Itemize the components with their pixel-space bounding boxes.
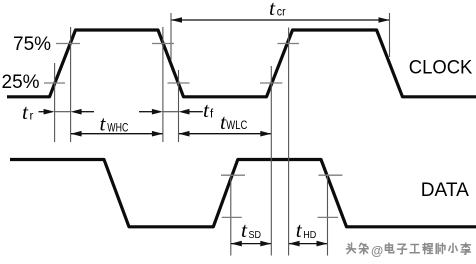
projection line rise2 25% <box>270 66 272 256</box>
tick upper on data fall <box>319 174 343 176</box>
tick 25% on rise2 <box>260 82 282 84</box>
watermark 头条@电子工程师小李 <box>346 243 470 254</box>
svg-text:t: t <box>241 218 248 242</box>
projection line rise1 25% <box>54 63 56 142</box>
dimension arrow t_r right (outside) <box>71 109 94 115</box>
svg-text:CLOCK: CLOCK <box>409 57 473 78</box>
projection line fall1 50% for tcr <box>170 13 172 60</box>
tick upper on data rise <box>221 174 245 176</box>
tick 25% on fall1 <box>168 82 190 84</box>
tick 75% on fall1 <box>152 43 174 45</box>
svg-text:WLC: WLC <box>226 118 247 132</box>
tick lower on data-rise projection <box>222 216 242 218</box>
svg-text:t: t <box>100 112 107 136</box>
connector line across t_f gap <box>163 111 179 113</box>
tick lower on data-fall projection <box>318 216 339 218</box>
svg-text:t: t <box>269 0 276 20</box>
svg-text:cr: cr <box>277 6 286 18</box>
clock waveform <box>7 30 476 97</box>
dimension arrow t_f left (outside) <box>139 109 163 115</box>
svg-text:@: @ <box>371 244 383 258</box>
projection line data rise <box>230 174 232 256</box>
svg-text:r: r <box>30 111 34 123</box>
projection line fall1 25% <box>178 70 180 142</box>
projection line rise2 75% <box>288 28 290 256</box>
svg-text:t: t <box>203 98 210 122</box>
svg-text:WHC: WHC <box>107 120 128 134</box>
projection line data fall <box>327 174 329 256</box>
tick 75% on rise2 <box>278 43 300 45</box>
svg-text:HD: HD <box>303 229 316 241</box>
dimension arrow t_WHC <box>71 131 163 137</box>
tick 75% on rise1 <box>56 43 80 45</box>
tick 25% on rise1 <box>44 82 65 84</box>
svg-text:75%: 75% <box>13 34 51 55</box>
dimension arrow t_r left <box>39 109 55 115</box>
dimension arrow t_HD <box>289 241 328 247</box>
projection line rise1 75% <box>70 27 72 142</box>
svg-text:SD: SD <box>249 229 262 241</box>
svg-text:25%: 25% <box>2 72 40 93</box>
svg-text:f: f <box>210 109 214 121</box>
svg-text:t: t <box>296 218 303 242</box>
svg-text:DATA: DATA <box>421 180 469 201</box>
connector line across t_r gap <box>55 111 71 113</box>
dimension arrow t_f right (outside) <box>179 109 203 115</box>
projection line fall2 50% for tcr <box>389 13 391 57</box>
svg-text:t: t <box>22 100 29 124</box>
projection line fall1 75% <box>162 27 164 142</box>
dimension arrow t_SD <box>231 241 271 247</box>
data waveform <box>10 160 476 227</box>
dimension arrow t_WLC <box>179 131 272 137</box>
dimension arrow t_cr <box>171 17 390 23</box>
